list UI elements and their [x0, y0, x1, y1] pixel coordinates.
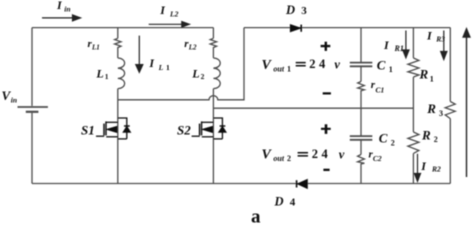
- svg-text:L: L: [95, 66, 103, 80]
- svg-text:L1: L1: [91, 43, 100, 51]
- svg-text:I: I: [159, 3, 166, 17]
- svg-text:out: out: [273, 65, 284, 74]
- svg-text:R1: R1: [394, 44, 404, 53]
- svg-text:S1: S1: [81, 123, 95, 138]
- svg-text:v: v: [334, 57, 340, 71]
- svg-text:R: R: [421, 128, 431, 143]
- svg-text:D: D: [274, 194, 284, 208]
- svg-text:C: C: [377, 58, 386, 73]
- svg-text:R3: R3: [435, 35, 445, 44]
- svg-text:4: 4: [322, 147, 329, 161]
- svg-text:I: I: [148, 56, 155, 70]
- svg-text:R: R: [419, 66, 429, 81]
- svg-text:2: 2: [309, 57, 315, 71]
- svg-text:I: I: [420, 159, 427, 173]
- svg-text:I: I: [56, 0, 63, 12]
- svg-text:1: 1: [430, 75, 434, 84]
- svg-text:v: v: [339, 147, 345, 161]
- svg-text:2: 2: [312, 147, 318, 161]
- svg-text:S2: S2: [177, 123, 191, 138]
- svg-text:4: 4: [319, 57, 326, 71]
- svg-text:R: R: [426, 101, 436, 116]
- svg-text:in: in: [11, 96, 17, 105]
- svg-text:L: L: [158, 63, 164, 72]
- svg-text:out: out: [273, 154, 284, 163]
- svg-text:I: I: [426, 29, 433, 43]
- svg-text:I: I: [383, 38, 390, 52]
- svg-text:V: V: [262, 147, 273, 162]
- svg-text:V: V: [262, 58, 273, 73]
- svg-text:1: 1: [287, 65, 291, 74]
- svg-text:3: 3: [301, 5, 307, 17]
- svg-text:R2: R2: [431, 165, 441, 174]
- svg-text:L: L: [191, 66, 199, 80]
- svg-text:2: 2: [434, 135, 438, 144]
- svg-text:3: 3: [439, 109, 443, 118]
- svg-text:D: D: [285, 3, 295, 17]
- svg-text:2: 2: [391, 138, 395, 147]
- svg-text:4: 4: [290, 197, 296, 209]
- svg-text:a: a: [251, 207, 261, 225]
- svg-text:1: 1: [389, 65, 393, 74]
- svg-text:C1: C1: [376, 85, 385, 94]
- svg-text:C2: C2: [373, 154, 382, 163]
- svg-text:in: in: [64, 4, 70, 13]
- svg-text:L2: L2: [188, 43, 197, 51]
- svg-text:2: 2: [287, 154, 291, 163]
- svg-text:C: C: [379, 130, 388, 145]
- svg-text:1: 1: [166, 63, 170, 72]
- svg-text:L2: L2: [169, 10, 179, 19]
- svg-text:2: 2: [201, 72, 205, 81]
- svg-text:1: 1: [105, 72, 109, 81]
